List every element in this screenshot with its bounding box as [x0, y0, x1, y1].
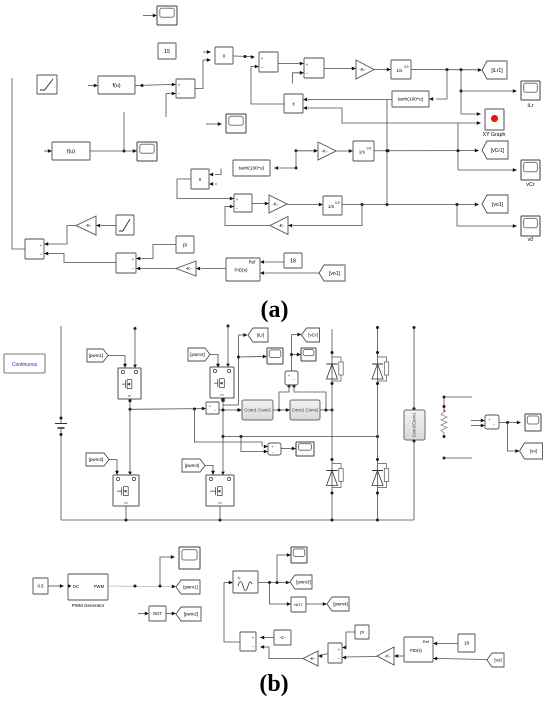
from tag [pwm4]	[182, 459, 205, 472]
svg-text:1/s: 1/s	[359, 149, 366, 154]
wire into VM2 plus	[471, 420, 481, 422]
gain block Gain6 -K- mirrored	[176, 261, 196, 276]
wire M2 source to rail	[125, 506, 127, 520]
node dot trunk L D3 top	[331, 458, 334, 461]
goto tag [vo]	[520, 443, 543, 459]
svg-text:vCr: vCr	[526, 182, 535, 188]
svg-text:[vCr]: [vCr]	[308, 333, 318, 338]
wire Int1 to goto tag iLr1	[411, 69, 479, 71]
red marker on load branch	[444, 410, 446, 412]
wire Product X2 output to Sum B minus input	[251, 67, 284, 105]
scope vob	[525, 414, 541, 431]
wire load bottom to VM2 column	[444, 457, 472, 459]
node dot VCO out 2	[276, 581, 279, 584]
svg-text:Continuous: Continuous	[12, 362, 38, 368]
node dot load bottom	[443, 435, 446, 438]
svg-text:Ref: Ref	[423, 639, 430, 644]
wire Gain7 output to Sum G lower input	[264, 647, 303, 659]
svg-text:tanh(100*u): tanh(100*u)	[239, 166, 265, 172]
wire VCO output	[258, 582, 286, 584]
wire pwm4 to M4 gate	[205, 466, 213, 472]
wire PWM Generator to goto pwm1	[108, 585, 172, 588]
svg-text:−: −	[214, 409, 216, 413]
svg-text:PWM Generator: PWM Generator	[72, 603, 105, 608]
transformer trunk vertical wire lower	[413, 441, 415, 520]
svg-text:-K-: -K-	[309, 656, 316, 661]
wire Sat2 to Gain5	[101, 225, 116, 227]
node dot vo1 wire 3	[456, 203, 459, 206]
wire Int2 to goto tag vCr1	[374, 150, 475, 152]
node junction dot on vCr1 wire right	[457, 149, 460, 152]
svg-text:[pwm2]: [pwm2]	[89, 457, 104, 462]
from tag [pwm1]	[87, 349, 108, 362]
product block X3	[191, 169, 209, 189]
pid block PID1 Ref PID(s)	[226, 258, 260, 281]
svg-text:[iLr]: [iLr]	[257, 333, 265, 338]
node dot M3 drain top	[227, 325, 230, 328]
node dot trunk R top	[376, 326, 379, 329]
wire stub Product X1 top input	[203, 51, 207, 53]
node dot trunk L D3 bottom	[331, 492, 334, 495]
wire Int3 to goto tag vo1	[342, 204, 476, 206]
wire Vb to Scope vb	[281, 448, 292, 450]
load resistor zigzag	[441, 412, 447, 437]
wire into VM2 minus	[471, 425, 481, 427]
wire pi to Sum F top input	[140, 245, 176, 259]
node dot ConnB output 1	[325, 409, 328, 412]
midpoint rail wire to rectifier leg	[223, 436, 378, 438]
node dot trunk R D2 top	[376, 351, 379, 354]
node dot midpoint A tap	[193, 408, 196, 411]
svg-text:v0: v0	[528, 237, 534, 243]
wire Gain8 output to Sum H lower input	[346, 656, 377, 659]
port square VM1 right	[293, 385, 296, 388]
scope vCrb	[301, 348, 316, 361]
wire into XY Graph second input	[458, 122, 477, 124]
wire feedback into Gain4	[293, 205, 362, 226]
wire -C- to Sum G top input	[264, 637, 274, 639]
wire pi to Sum H top input	[346, 632, 355, 648]
svg-text:[pwm3]: [pwm3]	[296, 580, 311, 585]
sum block Sum F	[116, 253, 136, 273]
svg-text:−: −	[493, 423, 495, 427]
wire ConnB output to trunk L	[320, 409, 332, 411]
integrator block Int3 1/s^0.9	[323, 196, 342, 215]
wire NOT1 to goto pwm2	[166, 613, 172, 615]
wire into Product X2 lower input	[308, 108, 458, 123]
wire into f(u) Fcn1	[88, 85, 94, 87]
tanh block Tanh1 tanh(100*u)	[392, 91, 429, 107]
node dot crossing at y151	[386, 149, 389, 152]
XY Graph block	[485, 109, 504, 130]
node dot trunk L D1 bottom	[331, 382, 334, 385]
wire constant 18 to PID1 first input	[265, 261, 284, 263]
node dot load lower terminal	[443, 457, 446, 460]
diode D2	[372, 363, 383, 365]
node dot trunk R at rail	[376, 519, 379, 522]
wire Sum A output to Product X1 lower input	[195, 60, 203, 89]
svg-text:Ref: Ref	[249, 260, 256, 265]
wire into scope Scope3	[206, 123, 218, 125]
node junction dot on vCr1 wire left	[387, 149, 390, 152]
svg-text:-K-: -K-	[359, 67, 366, 72]
wire Fcn1 to Sum A with junction	[135, 85, 172, 86]
wire branch down to scope v0	[457, 205, 513, 227]
wire Sum D to Gain3	[252, 203, 265, 205]
wire M4 source to rail	[219, 506, 221, 520]
integrator block Int2 1/s^0.9	[353, 141, 374, 161]
node dot midpoint B on rail	[222, 435, 225, 438]
wire Gain5 output to Sum E top input	[48, 226, 76, 245]
svg-text:[pwm4]: [pwm4]	[333, 602, 348, 607]
wire Gain6 output to Sum F lower input	[140, 268, 176, 270]
svg-text:[vCr1]: [vCr1]	[491, 148, 505, 154]
scope Scope1	[157, 6, 177, 25]
wire iLr tap vertical	[239, 335, 244, 405]
gain block Gain1 -K-	[356, 60, 374, 79]
svg-text:(a): (a)	[261, 297, 289, 323]
sum block Sum A	[176, 79, 195, 98]
svg-text:[pwm4]: [pwm4]	[185, 463, 200, 468]
svg-text:PWM: PWM	[94, 584, 105, 589]
from tag [pwm2]	[86, 453, 109, 466]
node dot at tanh2 input branch	[295, 167, 298, 170]
svg-text:0.5: 0.5	[37, 584, 44, 589]
wire Gain3 to Int3	[287, 204, 319, 206]
node dot VCO out 1	[268, 581, 271, 584]
svg-text:f(u): f(u)	[112, 83, 120, 89]
from tag [pwm3]	[188, 348, 210, 361]
svg-text:f(u): f(u)	[67, 149, 75, 155]
wire Sum F output to Sum E lower input	[48, 254, 116, 263]
svg-text:-K-: -K-	[85, 223, 92, 228]
constant block pi b	[355, 625, 369, 639]
rectifier trunk L vertical wire	[331, 329, 333, 520]
svg-text:-K-: -K-	[185, 266, 192, 271]
svg-text:[iLr1]: [iLr1]	[491, 68, 503, 74]
wire pwm2 to M2 gate	[109, 460, 117, 472]
svg-text:Conn1 Conn2: Conn1 Conn2	[292, 408, 319, 413]
node dot on Isum output at m wire	[222, 409, 225, 412]
node dot trunk L at rail	[331, 519, 334, 522]
scope Scope3	[226, 114, 246, 133]
wire into f(u) Fcn2	[44, 150, 48, 152]
voltage measurement block VM1	[285, 371, 298, 385]
svg-text:[pwm3]: [pwm3]	[190, 352, 205, 357]
diode D3	[327, 470, 338, 472]
wire into NOT1	[138, 613, 145, 615]
node dot load upper port	[443, 405, 446, 408]
vertical trunk wire lower section	[457, 123, 459, 170]
svg-text:[vo]: [vo]	[494, 658, 501, 663]
node dot vo1 wire 2	[386, 203, 389, 206]
wire branch up to scope pwm	[160, 557, 171, 586]
svg-text:m: m	[125, 501, 128, 505]
m port square of M3	[221, 398, 224, 401]
tanh block Tanh2 tanh(100*u)	[233, 160, 270, 176]
svg-text:pi: pi	[183, 242, 187, 248]
node junction dot on X1 output	[244, 55, 247, 58]
wire M3 drain vertical	[227, 326, 229, 364]
wire tap to scope iLrb	[239, 356, 264, 359]
wire VM2 branch to goto vo	[508, 423, 516, 452]
sum block Sum E	[25, 239, 44, 259]
wire midpoint A to current sum	[130, 408, 202, 411]
svg-text:PID(s): PID(s)	[410, 648, 422, 653]
wire branch to NOT2	[270, 583, 288, 605]
wire M1 drain vertical	[134, 329, 136, 365]
goto tag [vCr]	[302, 328, 320, 342]
node dot transformer top port	[413, 407, 416, 410]
wire branch to scope iLr	[461, 90, 513, 92]
node dot M2 source on rail	[125, 519, 128, 522]
svg-text:[vo1]: [vo1]	[492, 202, 504, 208]
node dot trunk R D2 bottom	[376, 382, 379, 385]
svg-text:[pwm1]: [pwm1]	[89, 353, 104, 358]
node dot vCr scope branch	[290, 353, 293, 356]
scope Scope2	[137, 142, 157, 161]
logic block NOT2	[291, 597, 306, 612]
scope iLrb	[267, 348, 283, 364]
mosfet block M2	[113, 475, 139, 506]
wire VM1 left port	[279, 385, 289, 410]
goto tag [pwm3] b	[290, 575, 312, 589]
sum block Sum D	[234, 194, 252, 212]
voltage sensor block Vb	[268, 443, 281, 455]
subsystem block Conn1Conn2 A	[242, 400, 273, 420]
node dot trunk R D4 top	[376, 458, 379, 461]
node dot midpoint rail at trunk R	[376, 435, 379, 438]
scope v0	[521, 216, 540, 236]
node dot M1 drain top	[134, 327, 137, 330]
svg-text:tanh(100*u): tanh(100*u)	[398, 97, 424, 103]
node dot transformer trunk top	[413, 326, 416, 329]
goto tag [iLr]	[248, 328, 268, 342]
wire Sum H output to Gain7	[322, 654, 328, 656]
saturation block Sat2	[116, 215, 134, 235]
wire constant 18b to PID2 first input	[437, 643, 458, 645]
node dot trunk R D4 bottom	[376, 492, 379, 495]
node dot pwm wire 1	[134, 585, 137, 588]
wire PID2 output to Gain8	[398, 655, 404, 657]
vertical stub wire above scope2 junction	[123, 112, 125, 151]
svg-text:NOT: NOT	[294, 602, 303, 607]
svg-text:NOT: NOT	[153, 611, 162, 616]
wire hook into Product X3 top input	[215, 169, 221, 175]
svg-text:DC: DC	[73, 584, 79, 589]
svg-text:Conn2Conn1: Conn2Conn1	[412, 412, 417, 437]
wire branch to scope vCr	[458, 169, 513, 171]
wire NOT2 to goto pwm4	[306, 603, 323, 605]
sum block Sum C	[304, 58, 324, 78]
sum block Sum H	[328, 643, 342, 663]
goto tag [pwm1] b	[176, 580, 200, 594]
sum block Sum B	[259, 52, 278, 72]
goto tag [iLr1]	[482, 61, 507, 79]
node junction dot on Fcn1 output	[141, 84, 144, 87]
svg-text:0.9: 0.9	[335, 201, 340, 205]
svg-text:Conn1 Conn2: Conn1 Conn2	[244, 408, 271, 413]
wire pwm1 to M1 gate	[108, 356, 125, 365]
wire M1 source down to M2 drain	[129, 399, 131, 472]
wire stub Product X3 lower input	[215, 183, 217, 185]
svg-text:-K-: -K-	[278, 223, 285, 228]
transformer trunk vertical wire upper	[413, 328, 415, 410]
saturation block Sat1	[37, 75, 57, 94]
port square VM1 left	[288, 385, 291, 388]
wire pwm3 to M3 gate	[210, 355, 218, 365]
vertical wire gain2-node to tanh2 input	[295, 151, 297, 168]
wire Tanh1 output to Product X2 top input	[308, 99, 392, 101]
wire midpoint B down to voltage sensor minus	[241, 437, 264, 452]
wire into goto vCr	[292, 334, 298, 336]
product block X1	[215, 47, 233, 64]
svg-text:f₀: f₀	[238, 575, 241, 580]
node dot M1 source port	[129, 399, 132, 402]
node dot on Isum output at iLr tap	[237, 409, 240, 412]
svg-text:[vo1]: [vo1]	[329, 271, 341, 277]
svg-text:-K-: -K-	[384, 654, 391, 659]
goto tag [pwm4] b	[327, 597, 349, 611]
svg-text:pi: pi	[360, 630, 364, 635]
gain block Gain4 -K- mirrored	[270, 217, 288, 235]
wire Gain4 output to Sum D minus input	[225, 207, 270, 226]
constant block pi	[176, 236, 194, 253]
gain block Gain5 -K- mirrored	[76, 216, 96, 235]
node dot transformer bottom port	[413, 440, 416, 443]
constant block 18	[284, 253, 302, 268]
from tag [vo] b	[487, 653, 504, 667]
svg-text:−: −	[293, 378, 295, 382]
wire down to tanh Tanh1 input	[436, 70, 447, 99]
wire load top to VM2 column	[444, 396, 472, 398]
subsystem block Conn2Conn1 transformer	[404, 410, 425, 440]
svg-text:[pwm1]: [pwm1]	[183, 585, 198, 590]
fcn block f(u) Fcn2	[52, 142, 90, 160]
node dot iLr tap branch	[237, 356, 240, 359]
wire branch to scope vco	[277, 555, 287, 583]
node dot on trunk at iLr scope branch	[460, 90, 463, 93]
svg-text:1/s: 1/s	[328, 204, 335, 209]
svg-text:-C-: -C-	[279, 635, 286, 640]
node dot on gain2 input	[295, 149, 298, 152]
node dot midpoint A junction	[129, 408, 132, 411]
mosfet block M3	[210, 367, 234, 398]
node junction dot 2 on iLr1 wire	[460, 68, 463, 71]
wire stub Product X1 lower input	[203, 59, 207, 61]
wire ConnA to ConnB	[273, 409, 286, 411]
wire Gain2 to Int2	[336, 150, 349, 152]
svg-text:18: 18	[290, 258, 296, 264]
gain block Gain7 -K- mirrored	[303, 651, 318, 666]
fcn block f(u) Fcn1	[98, 76, 135, 94]
node dot ConnB output at trunk	[331, 409, 334, 412]
svg-text:PID(s): PID(s)	[234, 268, 247, 273]
from tag [vo1]	[319, 265, 345, 281]
wire Gain1 to fractional integrator Int1	[374, 69, 387, 71]
svg-text:+: +	[288, 374, 290, 378]
scope vco	[291, 547, 307, 563]
wire Isum output to Conn1Conn2 A	[219, 409, 238, 411]
scope iLr	[521, 81, 540, 100]
wire VM1 right port	[294, 385, 326, 410]
svg-text:m: m	[221, 393, 224, 397]
node junction dot 1 on iLr1 wire	[446, 68, 449, 71]
gain block Gain8 -K- mirrored	[377, 647, 394, 665]
svg-text:m: m	[128, 394, 131, 398]
svg-text:+: +	[209, 405, 211, 409]
wire feedback up to VCO input	[224, 583, 240, 643]
wire into Sum A minus input	[166, 94, 172, 118]
node dot on VM2 output	[506, 421, 509, 424]
wire into scope Scope1	[143, 15, 153, 17]
bottom rail wire	[61, 519, 414, 521]
wire PID1 output to Gain6	[201, 268, 226, 270]
mosfet block M4	[206, 475, 234, 506]
wire stub into Sum C minus input	[293, 73, 301, 84]
voltage measurement block VM2	[485, 415, 499, 429]
constant block 15	[158, 43, 176, 59]
gain block Gain2 -K-	[318, 142, 336, 160]
product block X2	[284, 94, 303, 113]
wire into VCO	[224, 582, 229, 584]
continuous solver block	[4, 354, 45, 373]
load branch vertical wire	[443, 397, 445, 412]
wire Sum E output to far-left vertical	[12, 78, 25, 249]
node dot pwm wire 2	[159, 585, 162, 588]
svg-text:15: 15	[164, 49, 170, 55]
svg-text:0.9: 0.9	[367, 146, 372, 150]
wire from tag vo1 to PID1 second input	[265, 272, 319, 274]
rectifier trunk R vertical wire	[377, 327, 379, 520]
wire VM2 to scope vob	[499, 422, 517, 424]
constant block 0.5	[33, 578, 48, 594]
logic block NOT1	[149, 606, 166, 621]
goto tag [vCr1]	[482, 141, 508, 159]
wire vCr trunk vertical	[291, 335, 293, 372]
diode D1	[327, 363, 338, 365]
wire from tag vo to PID2 second input	[437, 659, 487, 660]
vertical trunk wire to scopes and XY graph	[460, 70, 462, 114]
node dot on Fcn2 output wire	[123, 150, 126, 153]
svg-text:-K-: -K-	[272, 202, 279, 207]
svg-text:[vo]: [vo]	[530, 449, 537, 454]
dc bus left vertical wire	[60, 326, 62, 423]
svg-text:XY Graph: XY Graph	[483, 132, 506, 138]
wire 0.5 to PWM Generator	[48, 585, 60, 587]
sum block Sum G	[240, 632, 256, 651]
vco block	[233, 571, 258, 593]
pwm generator block	[68, 574, 108, 600]
svg-text:+: +	[489, 418, 491, 422]
scope pwm	[179, 547, 200, 569]
dc voltage source battery	[55, 423, 67, 425]
node dot on ConnA-ConnB wire	[278, 409, 281, 412]
wire into Gain2	[296, 150, 314, 152]
pid block PID2 Ref PID(s)	[404, 637, 433, 662]
node dot M4 source on rail	[219, 519, 222, 522]
constant block -C-	[274, 630, 291, 645]
subsystem block Conn1Conn2 B	[290, 400, 320, 420]
constant block 18 b	[458, 634, 475, 652]
wire M3 m-port down to M4 drain	[222, 399, 224, 472]
wire to scope vCrb	[292, 354, 298, 356]
integrator block Int1 1/s^0.9	[391, 60, 411, 79]
diode D4	[372, 470, 383, 472]
wire Fcn2 to Scope2	[90, 150, 133, 152]
goto tag [vo1]	[482, 195, 508, 213]
svg-text:-K-: -K-	[321, 149, 328, 154]
